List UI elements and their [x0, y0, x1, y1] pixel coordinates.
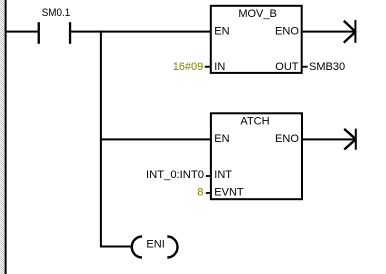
- svg-text:16#09: 16#09: [173, 61, 204, 73]
- svg-text:ENO: ENO: [275, 133, 299, 145]
- svg-text:IN: IN: [214, 61, 225, 73]
- pin IN (MOV_B): [205, 61, 226, 73]
- pin OUT (MOV_B): [275, 61, 307, 73]
- pin EVNT (ATCH): [206, 187, 244, 199]
- svg-text:EVNT: EVNT: [214, 187, 244, 199]
- value 16#09: [173, 61, 204, 73]
- svg-text:MOV_B: MOV_B: [238, 8, 277, 20]
- box ATCH U2: [211, 113, 302, 199]
- pin EN (MOV_B): [214, 26, 229, 38]
- operand INT_0:INT0: [146, 169, 204, 181]
- operand SMB30: [309, 61, 345, 73]
- svg-text:EN: EN: [214, 26, 229, 38]
- svg-text:EN: EN: [214, 133, 229, 145]
- open branch arrow 2: [344, 129, 357, 150]
- wire contact to MOV_B EN: [71, 31, 212, 33]
- svg-text:8: 8: [197, 187, 203, 199]
- svg-text:ENI: ENI: [146, 239, 164, 251]
- pin ENO (MOV_B): [275, 26, 299, 38]
- box MOV_B U1: [211, 6, 302, 73]
- left power rail: [5, 0, 7, 274]
- coil ENI: [132, 237, 178, 258]
- svg-text:ENO: ENO: [275, 26, 299, 38]
- wire branch to ENI coil: [101, 246, 131, 248]
- pin INT (ATCH): [206, 169, 233, 181]
- contact SM0.1: [38, 7, 72, 44]
- wire branch vertical: [100, 31, 102, 248]
- svg-text:OUT: OUT: [275, 61, 299, 73]
- open branch arrow 1: [344, 20, 357, 43]
- svg-text:SM0.1: SM0.1: [42, 7, 70, 19]
- margin strip: [0, 0, 5, 274]
- value 8: [197, 187, 203, 199]
- wire rail to contact: [6, 31, 38, 33]
- wire MOV_B ENO to arrow: [303, 31, 355, 33]
- svg-text:INT_0:INT0: INT_0:INT0: [146, 169, 204, 181]
- svg-text:SMB30: SMB30: [309, 61, 345, 73]
- svg-text:ATCH: ATCH: [240, 115, 269, 127]
- wire ATCH ENO to arrow: [303, 138, 355, 140]
- svg-text:INT: INT: [214, 169, 232, 181]
- pin ENO (ATCH): [275, 133, 299, 145]
- pin EN (ATCH): [214, 133, 229, 145]
- wire branch to ATCH EN: [101, 138, 212, 140]
